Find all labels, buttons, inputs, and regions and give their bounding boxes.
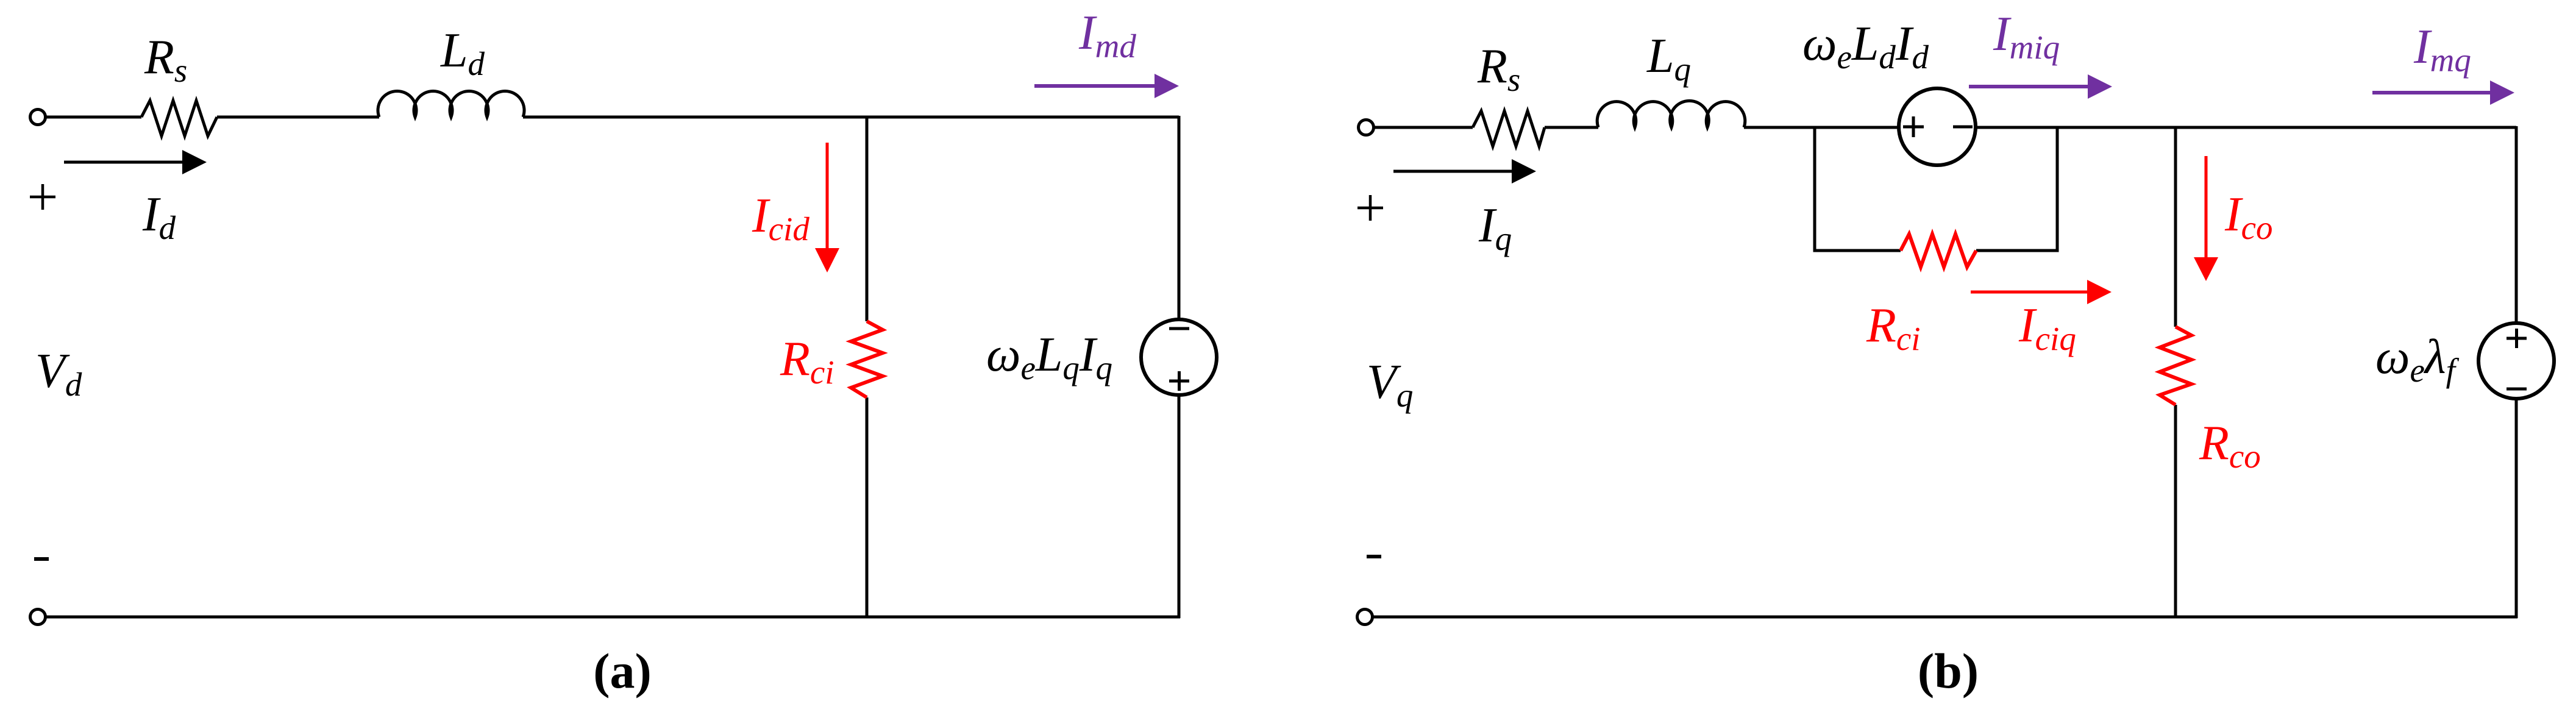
svg-text:ωeLqIq: ωeLqIq [986,328,1112,386]
wire [523,116,1179,119]
resistor Rs (a) [141,101,217,136]
wire parallel-branch right [1976,126,2057,251]
terminal bottom-left (b) [1357,610,1373,625]
arrow Ico red [2205,156,2208,259]
source weLdId minus [1953,126,1973,129]
arrow Imd purple [1034,84,1156,88]
wire [2515,126,2518,324]
arrow Iq [1393,170,1513,173]
wire bottom (a) [46,616,1180,619]
source weLqIq plus [1169,371,1189,391]
minus sign (a) [34,557,49,561]
wire Rco branch bottom [2174,405,2177,618]
wire [46,116,141,119]
arrow Id [64,161,183,164]
wire [1744,126,1900,129]
arrow Imq purple [2372,91,2491,94]
arrow Icid red [826,143,829,249]
resistor Rci (a) red [851,321,883,397]
wire [1545,126,1598,129]
source weLf circle [2478,323,2554,399]
plus sign (a) [30,184,55,210]
wire [1974,126,2516,129]
wire parallel-branch left [1815,126,1901,251]
wire [1178,394,1181,618]
resistor Rs (b) [1473,111,1545,146]
terminal top-left (a) [30,110,46,125]
wire [866,116,869,321]
inductor Ld [378,91,524,117]
wire [2515,397,2518,618]
inductor Lq [1597,101,1745,127]
wire bottom (b) [1373,616,2517,619]
wire [1178,116,1181,321]
terminal bottom-left (a) [30,610,46,625]
wire Rco branch top [2174,126,2177,327]
svg-text:ωeLdId: ωeLdId [1802,17,1929,76]
resistor Rco red [2160,327,2191,405]
resistor Rci (b) red [1901,234,1976,267]
terminal top-left (b) [1359,120,1374,135]
arrow Imiq purple [1969,85,2089,88]
source weLqIq minus [1169,327,1189,330]
minus sign (b) [1367,555,1381,558]
source welf minus [2507,388,2527,391]
svg-text:(a): (a) [593,643,652,699]
wire [217,116,379,119]
wire [1375,126,1473,129]
wire [866,397,869,618]
source weLdId plus [1903,116,1924,137]
svg-text:(b): (b) [1918,643,1979,699]
arrow Iciq red [1971,291,2088,294]
source weLdId circle [1899,88,1976,165]
plus sign (b) [1357,195,1383,221]
source welf plus [2507,329,2527,348]
source weLqIq circle [1141,319,1217,395]
